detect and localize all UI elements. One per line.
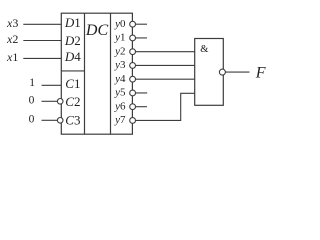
output bubble y5 — [130, 90, 136, 96]
svg-text:x3: x3 — [6, 16, 18, 30]
output bubble y4 — [130, 76, 136, 82]
wire y4 to gate — [136, 78, 195, 80]
svg-text:y5: y5 — [114, 87, 126, 99]
wire 0 to C3 bubble — [42, 119, 58, 121]
svg-text:x1: x1 — [6, 50, 18, 64]
output bubble y3 — [130, 63, 136, 69]
svg-text:y6: y6 — [114, 100, 126, 112]
NAND gate box — [195, 39, 224, 106]
svg-text:0: 0 — [29, 113, 35, 125]
decoder D/C section separator — [61, 70, 84, 72]
wire x1 to D4 — [23, 57, 61, 59]
wire gate output to F — [226, 71, 250, 73]
svg-text:y2: y2 — [114, 45, 125, 57]
output bubble y6 — [130, 104, 136, 110]
wire 1 to C1 — [42, 84, 62, 86]
svg-text:0: 0 — [29, 95, 35, 107]
wire y2 to gate — [136, 51, 195, 53]
svg-text:F: F — [255, 64, 266, 81]
svg-text:DC: DC — [85, 22, 109, 39]
svg-text:y7: y7 — [114, 114, 126, 126]
NAND output bubble — [219, 69, 225, 75]
output bubble y7 — [130, 118, 136, 124]
svg-text:y4: y4 — [114, 73, 126, 85]
svg-text:C1: C1 — [65, 76, 80, 91]
svg-text:&: & — [200, 44, 208, 55]
wire stub y0 — [136, 23, 148, 25]
svg-text:y3: y3 — [114, 59, 126, 71]
decoder inner divider left — [84, 13, 86, 134]
inversion bubble C3 — [57, 118, 63, 124]
decoder inner divider right — [110, 13, 112, 134]
svg-text:y1: y1 — [114, 32, 125, 44]
wire 0 to C2 bubble — [42, 100, 58, 102]
wire stub y1 — [136, 37, 148, 39]
output bubble y1 — [130, 35, 136, 41]
wire y3 to gate — [136, 64, 195, 66]
wire y7 to gate (right, up, right) — [136, 93, 195, 120]
output bubble y2 — [130, 49, 136, 55]
wire x2 to D2 — [23, 40, 61, 42]
svg-text:D4: D4 — [64, 49, 81, 64]
svg-text:D2: D2 — [64, 33, 81, 48]
wire stub y5 — [136, 92, 147, 94]
inversion bubble C2 — [57, 99, 63, 105]
svg-text:C3: C3 — [65, 113, 80, 128]
wire x3 to D1 — [23, 23, 61, 25]
svg-text:1: 1 — [29, 77, 35, 89]
svg-text:y0: y0 — [114, 18, 126, 30]
wire stub y6 — [136, 106, 148, 108]
svg-text:C2: C2 — [65, 94, 80, 109]
decoder DC box — [61, 13, 132, 134]
svg-text:D1: D1 — [64, 15, 81, 30]
output bubble y0 — [130, 21, 136, 27]
svg-text:x2: x2 — [6, 32, 18, 46]
